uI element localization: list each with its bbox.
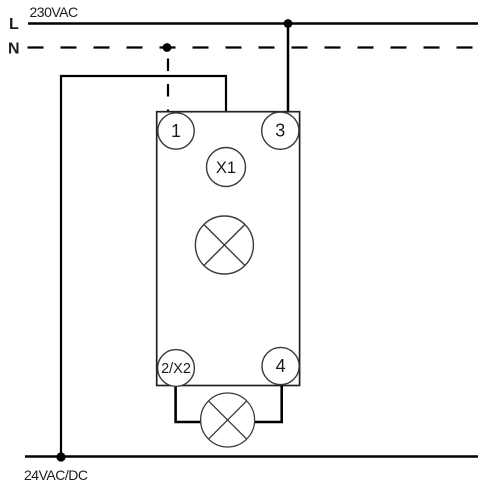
svg-text:1: 1: [171, 121, 181, 141]
svg-text:230VAC: 230VAC: [30, 4, 78, 20]
svg-text:24VAC/DC: 24VAC/DC: [24, 467, 88, 483]
svg-text:L: L: [9, 16, 19, 33]
svg-text:2/X2: 2/X2: [161, 361, 191, 377]
svg-text:N: N: [8, 41, 20, 58]
svg-text:3: 3: [275, 121, 285, 141]
svg-text:4: 4: [276, 356, 286, 376]
svg-text:X1: X1: [216, 159, 236, 177]
